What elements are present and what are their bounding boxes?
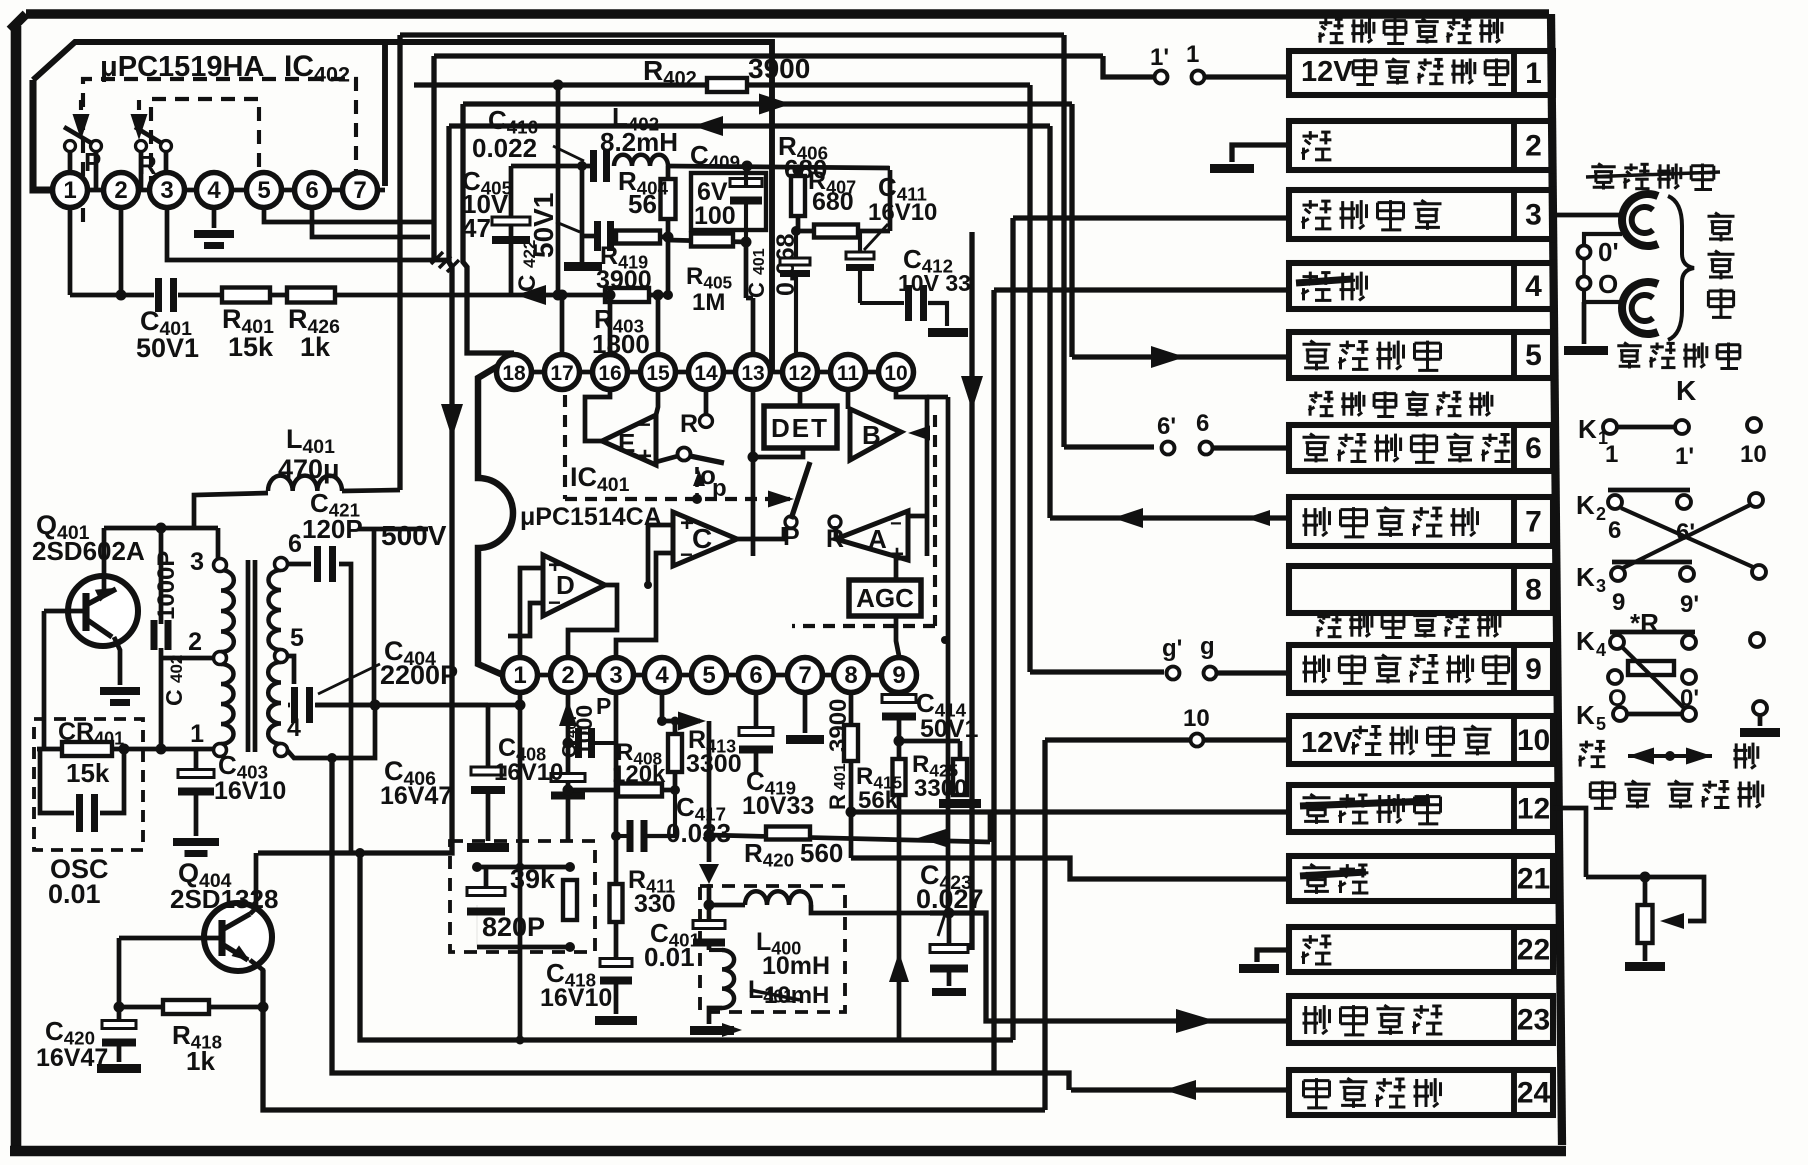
svg-text:3900: 3900 xyxy=(748,53,810,84)
svg-text:K: K xyxy=(1676,375,1696,406)
svg-text:402: 402 xyxy=(167,655,186,683)
svg-text:C: C xyxy=(161,689,187,706)
svg-text:12: 12 xyxy=(788,362,811,385)
svg-text:560: 560 xyxy=(800,838,843,868)
svg-text:7: 7 xyxy=(798,662,811,689)
svg-text:p: p xyxy=(712,475,727,502)
svg-text:422: 422 xyxy=(520,240,539,268)
svg-text:3: 3 xyxy=(1525,199,1542,232)
svg-text:470μ: 470μ xyxy=(278,454,340,484)
svg-text:15: 15 xyxy=(646,362,670,385)
svg-text:R: R xyxy=(680,410,698,438)
svg-text:4: 4 xyxy=(207,177,221,204)
svg-text:10V33: 10V33 xyxy=(742,792,814,820)
svg-text:16V47: 16V47 xyxy=(380,782,452,810)
svg-text:16V10: 16V10 xyxy=(494,759,563,786)
svg-text:8: 8 xyxy=(844,662,857,689)
svg-text:O: O xyxy=(1598,269,1618,299)
svg-text:1: 1 xyxy=(1525,57,1542,90)
svg-text:39k: 39k xyxy=(510,864,556,894)
svg-text:2: 2 xyxy=(1596,504,1606,524)
svg-text:6: 6 xyxy=(1196,410,1209,437)
svg-text:10: 10 xyxy=(1183,705,1210,732)
svg-text:K: K xyxy=(1576,700,1595,730)
svg-text:g': g' xyxy=(1162,635,1182,662)
svg-text:B: B xyxy=(862,420,881,450)
svg-text:C: C xyxy=(692,523,712,554)
svg-text:4: 4 xyxy=(1596,640,1606,660)
svg-text:120P: 120P xyxy=(302,514,363,544)
svg-text:9': 9' xyxy=(1680,591,1699,618)
svg-text:12V: 12V xyxy=(1301,56,1353,88)
svg-text:6: 6 xyxy=(1525,432,1542,465)
svg-text:14: 14 xyxy=(694,362,718,385)
svg-text:1: 1 xyxy=(513,662,526,689)
svg-text:5: 5 xyxy=(1596,714,1606,734)
svg-text:56k: 56k xyxy=(858,787,899,814)
svg-text:18: 18 xyxy=(502,362,526,385)
svg-text:2: 2 xyxy=(561,662,574,689)
svg-text:16V10: 16V10 xyxy=(868,199,937,226)
svg-text:DET: DET xyxy=(771,413,829,443)
svg-text:50V1: 50V1 xyxy=(136,333,199,363)
svg-text:5: 5 xyxy=(290,624,304,652)
svg-text:16V10: 16V10 xyxy=(540,984,612,1012)
svg-text:K: K xyxy=(1576,626,1595,656)
svg-text:C: C xyxy=(514,275,541,292)
svg-text:AGC: AGC xyxy=(856,583,914,613)
svg-text:6: 6 xyxy=(288,530,302,558)
svg-text:+: + xyxy=(548,552,562,579)
svg-text:3900: 3900 xyxy=(596,266,652,294)
svg-text:500V: 500V xyxy=(381,520,447,551)
svg-text:2200P: 2200P xyxy=(380,660,458,690)
svg-text:10: 10 xyxy=(884,362,907,385)
svg-text:11: 11 xyxy=(837,362,860,385)
svg-text:16V10: 16V10 xyxy=(214,777,286,805)
svg-text:330: 330 xyxy=(634,890,676,918)
svg-text:0.01: 0.01 xyxy=(644,942,695,972)
svg-text:12V: 12V xyxy=(1301,727,1353,759)
svg-text:1': 1' xyxy=(1150,44,1169,71)
svg-text:820P: 820P xyxy=(482,912,545,942)
svg-text:−: − xyxy=(890,513,902,535)
svg-text:+: + xyxy=(638,443,652,470)
svg-text:A: A xyxy=(868,524,887,554)
svg-text:1: 1 xyxy=(1605,441,1618,468)
svg-text:P: P xyxy=(84,147,101,177)
svg-text:23: 23 xyxy=(1517,1004,1550,1037)
svg-text:E: E xyxy=(618,428,635,458)
svg-text:3300: 3300 xyxy=(686,750,742,778)
svg-text:−: − xyxy=(548,590,561,615)
svg-text:21: 21 xyxy=(1517,863,1550,896)
svg-text:120k: 120k xyxy=(612,761,666,788)
svg-text:56: 56 xyxy=(628,189,657,219)
svg-text:5: 5 xyxy=(257,177,270,204)
svg-text:13: 13 xyxy=(741,362,764,385)
svg-text:7: 7 xyxy=(353,177,366,204)
svg-text:6: 6 xyxy=(1608,517,1621,544)
svg-text:2: 2 xyxy=(114,177,127,204)
svg-text:3: 3 xyxy=(1596,576,1606,596)
svg-text:10: 10 xyxy=(1517,724,1550,757)
svg-text:9: 9 xyxy=(1612,589,1625,616)
svg-text:6': 6' xyxy=(1157,413,1176,440)
svg-text:3900: 3900 xyxy=(825,699,852,752)
svg-text:3: 3 xyxy=(609,662,622,689)
svg-text:16: 16 xyxy=(598,362,621,385)
svg-text:μPC1514CA: μPC1514CA xyxy=(520,503,662,531)
svg-text:8: 8 xyxy=(1525,574,1542,607)
svg-text:5: 5 xyxy=(702,662,715,689)
svg-text:−: − xyxy=(680,542,693,567)
svg-text:15k: 15k xyxy=(228,332,274,362)
svg-text:4: 4 xyxy=(1525,270,1542,303)
svg-text:g: g xyxy=(1200,633,1215,660)
svg-text:10: 10 xyxy=(1740,441,1767,468)
svg-text:3300: 3300 xyxy=(914,775,967,802)
svg-text:8.2mH: 8.2mH xyxy=(600,127,678,157)
svg-text:16V47: 16V47 xyxy=(36,1044,108,1072)
svg-text:6: 6 xyxy=(305,177,318,204)
svg-text:3: 3 xyxy=(190,548,204,576)
svg-text:4: 4 xyxy=(655,662,669,689)
svg-text:1k: 1k xyxy=(186,1046,215,1076)
svg-text:5: 5 xyxy=(1525,339,1542,372)
svg-text:9: 9 xyxy=(1525,653,1542,686)
svg-text:2: 2 xyxy=(188,628,202,656)
svg-text:15k: 15k xyxy=(66,758,110,788)
svg-text:22: 22 xyxy=(1517,934,1550,967)
svg-text:3: 3 xyxy=(160,177,173,204)
svg-text:0.022: 0.022 xyxy=(472,133,537,163)
svg-text:100: 100 xyxy=(694,202,736,230)
svg-text:0': 0' xyxy=(1598,237,1619,267)
svg-text:24: 24 xyxy=(1517,1077,1551,1110)
svg-text:1': 1' xyxy=(1675,443,1694,470)
svg-text:K: K xyxy=(1578,414,1597,444)
svg-text:6: 6 xyxy=(749,662,762,689)
svg-text:10mH: 10mH xyxy=(762,952,830,980)
svg-text:R: R xyxy=(825,794,850,810)
svg-text:K: K xyxy=(1576,562,1595,592)
svg-text:2SD602A: 2SD602A xyxy=(32,536,145,566)
svg-text:1: 1 xyxy=(1186,41,1199,68)
svg-text:17: 17 xyxy=(550,362,573,385)
svg-text:−: − xyxy=(638,412,651,437)
svg-text:+: + xyxy=(680,510,694,537)
svg-text:12: 12 xyxy=(1517,793,1550,826)
svg-text:1k: 1k xyxy=(300,332,331,362)
svg-text:50V1: 50V1 xyxy=(920,715,978,743)
svg-text:9: 9 xyxy=(892,662,905,689)
svg-text:K: K xyxy=(1576,490,1595,520)
svg-text:401: 401 xyxy=(832,763,849,790)
svg-text:2: 2 xyxy=(1525,130,1542,163)
svg-text:1: 1 xyxy=(63,177,76,204)
svg-text:1: 1 xyxy=(190,720,204,748)
svg-text:P: P xyxy=(783,523,800,551)
svg-text:401: 401 xyxy=(751,248,768,275)
svg-text:1M: 1M xyxy=(692,289,725,316)
svg-text:0.01: 0.01 xyxy=(48,879,101,909)
svg-text:1000P: 1000P xyxy=(153,551,180,620)
svg-text:2SD1328: 2SD1328 xyxy=(170,884,278,914)
svg-text:47: 47 xyxy=(462,213,491,243)
svg-text:P: P xyxy=(596,693,611,719)
svg-text:7: 7 xyxy=(1525,506,1542,539)
